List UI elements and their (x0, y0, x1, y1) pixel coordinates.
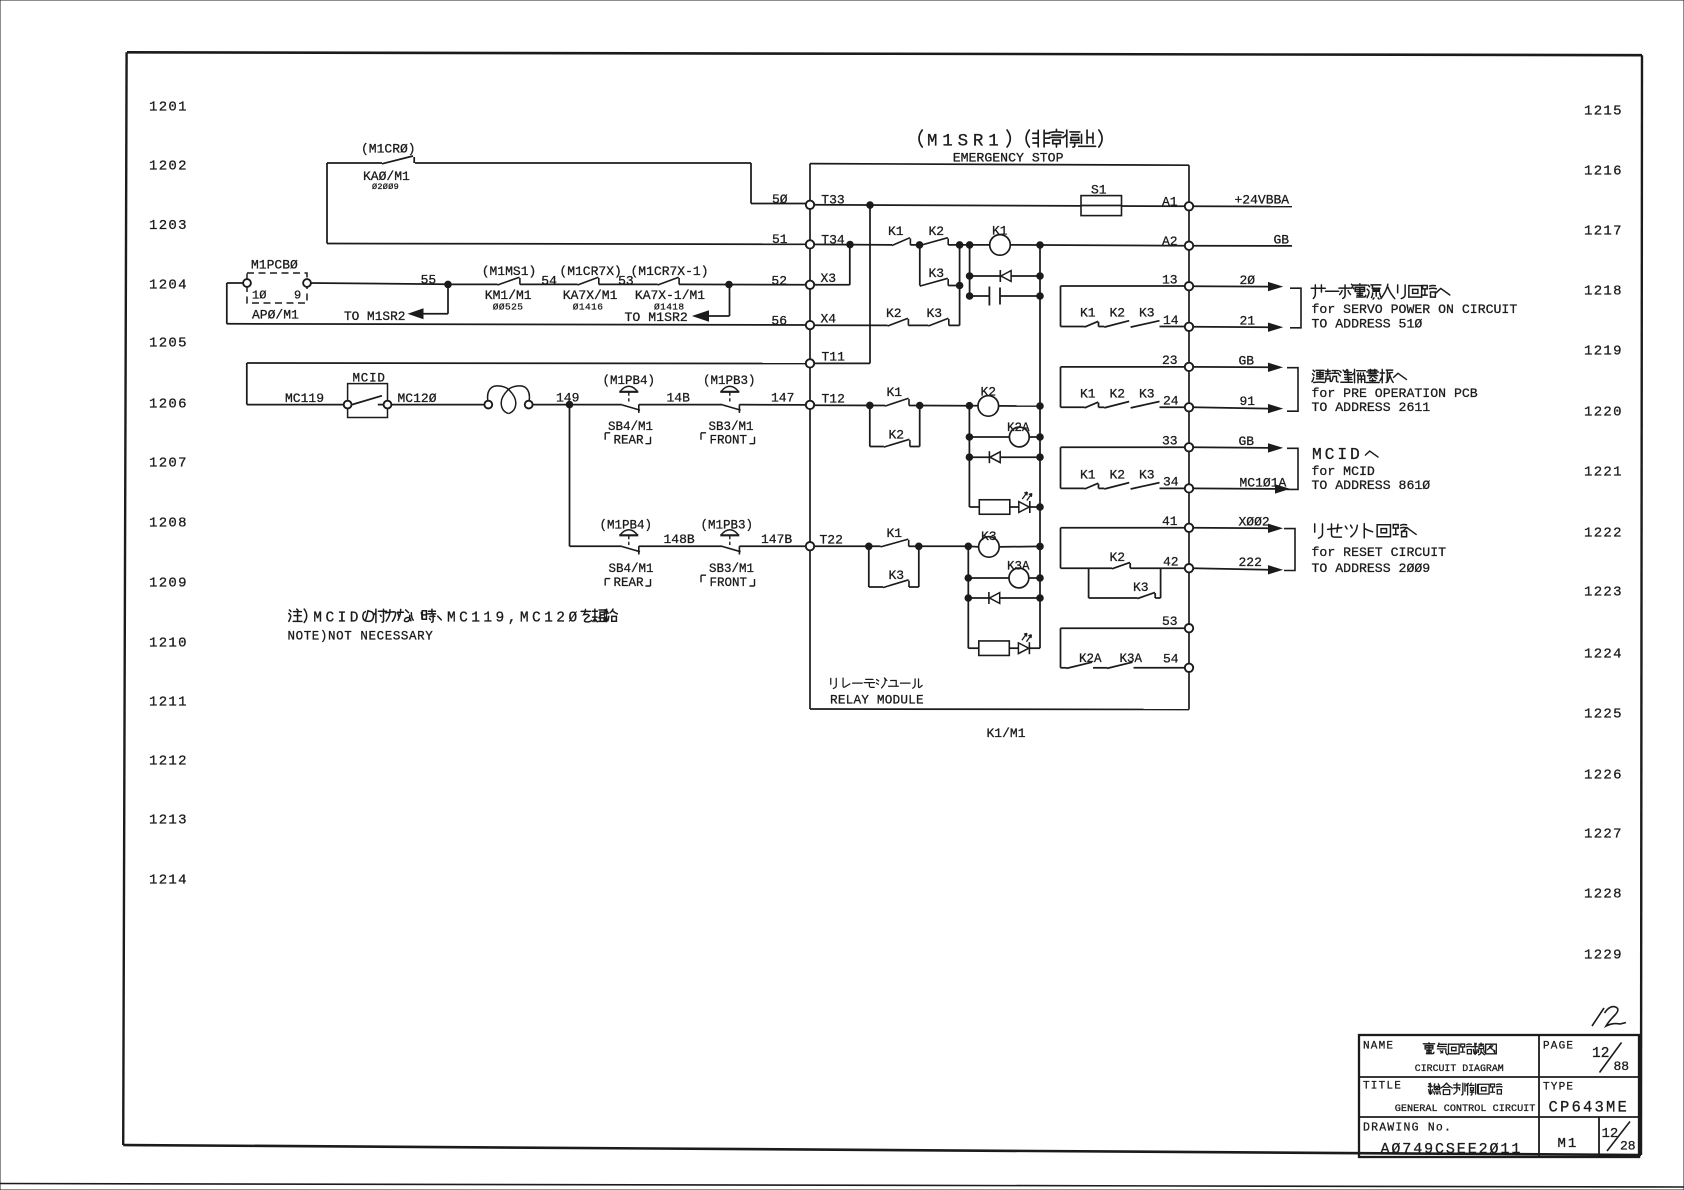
svg-text:1212: 1212 (149, 754, 188, 770)
svg-text:C: C (459, 611, 468, 627)
wire node 54 (520, 283, 578, 285)
svg-text:K2: K2 (886, 306, 902, 321)
svg-text:TO M1SR2: TO M1SR2 (625, 310, 688, 325)
left margin line numbers 1201-1214 (149, 100, 188, 889)
svg-text:14B: 14B (667, 391, 691, 406)
wire T34 row (810, 243, 892, 246)
svg-text:1224: 1224 (1584, 647, 1623, 663)
pushbutton SB3/M1 (M1PB3) FRONT, NC (701, 374, 756, 448)
wire K2K3 join down to X4 (959, 245, 961, 326)
wire coil branch down (969, 245, 971, 296)
svg-text:1211: 1211 (149, 695, 188, 711)
svg-text:for PRE OPERATION PCB: for PRE OPERATION PCB (1312, 386, 1478, 401)
svg-text:M: M (520, 611, 529, 627)
svg-text:13: 13 (1162, 273, 1178, 288)
contact K1 (888, 224, 910, 246)
svg-text:1225: 1225 (1584, 707, 1623, 723)
contact KA7X-1/M1 (M1CR7X-1) (631, 264, 709, 313)
svg-text:1216: 1216 (1584, 164, 1623, 180)
svg-text:for RESET CIRCUIT: for RESET CIRCUIT (1312, 545, 1447, 560)
svg-text:K3A: K3A (1007, 560, 1030, 574)
svg-text:K3: K3 (981, 529, 997, 544)
net GB(23) arrow (1193, 354, 1281, 372)
svg-text:(M1CR7X): (M1CR7X) (559, 264, 621, 279)
svg-text:1: 1 (471, 611, 480, 627)
wire node 147 (739, 404, 806, 406)
svg-text:SB3/M1: SB3/M1 (709, 562, 754, 576)
title block (1359, 1035, 1639, 1157)
svg-text:12: 12 (1592, 1046, 1609, 1062)
switch MCID (box with terminals) (344, 372, 392, 418)
terminal A1 (1185, 202, 1193, 210)
fuse S1 (1081, 183, 1122, 216)
svg-text:Ø1416: Ø1416 (573, 301, 604, 312)
svg-text:APØ/M1: APØ/M1 (252, 308, 299, 323)
title kanji general control (1395, 1083, 1536, 1115)
terminal 24 (1185, 403, 1193, 411)
reset annotation (1284, 524, 1446, 576)
MCID annotation (1287, 445, 1430, 493)
svg-text:REAR: REAR (614, 576, 645, 590)
svg-text:NAME: NAME (1363, 1041, 1394, 1053)
diode (K2 suppressor) (966, 451, 1043, 463)
svg-text:1218: 1218 (1584, 284, 1623, 300)
wire T12 row inside (814, 404, 885, 406)
svg-text:FRONT: FRONT (710, 576, 748, 590)
wire node 14B (639, 404, 723, 406)
terminal 13 (1185, 282, 1193, 290)
svg-text:1213: 1213 (149, 813, 188, 829)
svg-text:GENERAL CONTROL CIRCUIT: GENERAL CONTROL CIRCUIT (1395, 1104, 1536, 1115)
net 222 arrow (1193, 555, 1281, 574)
terminal T12 (806, 392, 845, 410)
svg-text:CIRCUIT DIAGRAM: CIRCUIT DIAGRAM (1415, 1063, 1504, 1074)
scan artifact line (0, 1184, 1684, 1188)
svg-text:K1: K1 (888, 224, 904, 239)
wire node 148B (639, 545, 723, 547)
svg-text:M1PCBØ: M1PCBØ (251, 258, 298, 273)
wire 55 from AP0 pin 9 (311, 283, 448, 284)
svg-text:K2: K2 (929, 224, 945, 239)
junction node 55 (445, 281, 452, 288)
pushbutton SB4/M1 (M1PB4) REAR lower, NC (600, 519, 654, 590)
svg-text:88: 88 (1614, 1059, 1630, 1074)
svg-text:54: 54 (1163, 652, 1179, 667)
net GB (1193, 233, 1292, 248)
pushbutton SB3/M1 (M1PB3) FRONT lower, NC (701, 519, 755, 590)
svg-text:222: 222 (1239, 555, 1262, 570)
relay KA0/M1 loop wires (327, 163, 806, 244)
svg-text:TO M1SR2: TO M1SR2 (344, 309, 405, 324)
svg-text:1207: 1207 (149, 456, 188, 472)
svg-text:K2A: K2A (1079, 652, 1102, 666)
terminal 34 (1185, 484, 1193, 492)
svg-text:DRAWING No.: DRAWING No. (1363, 1122, 1452, 1135)
coil K1 (990, 224, 1011, 256)
svg-text:K2: K2 (889, 428, 905, 443)
svg-text:147: 147 (771, 391, 794, 406)
svg-text:K2: K2 (981, 385, 997, 400)
terminal 33 (1185, 443, 1193, 451)
contact group K2/K3 (rows 41-42) (1061, 528, 1185, 569)
svg-text:FRONT: FRONT (710, 434, 748, 448)
contact K2 (hold, parallel K1) (870, 405, 920, 447)
svg-text:1221: 1221 (1584, 465, 1623, 481)
servo power annotation (1290, 284, 1517, 332)
wire 149 branch down (569, 405, 571, 547)
svg-text:1208: 1208 (149, 516, 188, 532)
resistor + LED (K2 indicator) (969, 492, 1043, 514)
handwritten page mark 12 (1592, 1007, 1626, 1026)
svg-text:M: M (447, 611, 456, 627)
svg-text:(M1CRØ): (M1CRØ) (361, 142, 416, 157)
svg-text:T11: T11 (822, 350, 846, 365)
svg-text:1219: 1219 (1584, 344, 1623, 360)
svg-text:GB: GB (1274, 233, 1290, 248)
svg-text:148B: 148B (664, 532, 695, 547)
svg-text:Ø: Ø (568, 611, 577, 627)
wire node 53 (599, 283, 658, 285)
svg-text:MCID: MCID (1312, 445, 1363, 464)
svg-text:14: 14 (1163, 313, 1179, 328)
svg-text:,: , (508, 611, 517, 627)
svg-text:1: 1 (544, 611, 553, 627)
contact K1 (T12) (885, 385, 909, 406)
svg-text:C: C (325, 611, 334, 627)
svg-text:REAR: REAR (614, 434, 645, 448)
svg-text:K3: K3 (1133, 580, 1149, 595)
wire AP0 left loop to X4 row (227, 283, 243, 324)
connector M1PCB0 (AP0/M1 pins 10,9) (243, 258, 311, 323)
title kanji circuit diagram (1415, 1043, 1504, 1074)
wire 52 to X3 (679, 283, 806, 285)
arrow TO M1SR2 (left) (344, 284, 448, 323)
svg-text:1210: 1210 (149, 636, 188, 652)
svg-text:1209: 1209 (149, 576, 188, 592)
svg-text:TO ADDRESS 2ØØ9: TO ADDRESS 2ØØ9 (1312, 561, 1431, 576)
wire MC119 (247, 404, 344, 406)
svg-text:1227: 1227 (1584, 827, 1623, 843)
svg-text:M: M (313, 611, 322, 627)
svg-text:X4: X4 (821, 312, 837, 327)
label relay module (830, 678, 924, 708)
diode (K3 suppressor) (965, 592, 1043, 604)
svg-text:I: I (338, 611, 347, 627)
right margin line numbers 1215-1229 (1584, 104, 1623, 964)
coil K3A (965, 560, 1043, 588)
svg-text:1204: 1204 (149, 278, 188, 294)
svg-text:34: 34 (1163, 475, 1179, 490)
svg-text:K3: K3 (1139, 306, 1155, 321)
svg-text:K3: K3 (1139, 468, 1155, 483)
svg-text:21: 21 (1240, 313, 1256, 328)
wire X3 link up (849, 245, 851, 285)
contact K3 (parallel with K2) (920, 245, 960, 286)
terminal T22 (806, 533, 843, 551)
svg-text:2: 2 (556, 611, 565, 627)
svg-text:K2: K2 (1110, 306, 1126, 321)
contact K3 (hold, parallel K1) (869, 546, 919, 587)
svg-text:1206: 1206 (149, 397, 188, 413)
svg-text:K3: K3 (929, 266, 945, 281)
svg-text:M1: M1 (1558, 1136, 1579, 1152)
svg-text:55: 55 (421, 272, 437, 287)
svg-text:SB4/M1: SB4/M1 (608, 420, 653, 434)
svg-text:S1: S1 (1091, 183, 1107, 198)
svg-text:+24VBBA: +24VBBA (1235, 193, 1290, 208)
net GB(33) arrow (1193, 434, 1281, 452)
svg-text:M: M (927, 132, 938, 152)
svg-text:54: 54 (541, 273, 557, 288)
svg-text:TITLE: TITLE (1363, 1081, 1402, 1093)
terminal 54 (1185, 664, 1193, 672)
svg-text:T22: T22 (820, 533, 843, 548)
wire T11 row (247, 363, 806, 405)
wire T22 feed (570, 545, 622, 547)
terminal 42 (1185, 564, 1193, 572)
svg-text:ØØ525: ØØ525 (493, 301, 524, 312)
svg-text:1217: 1217 (1584, 224, 1623, 240)
junction node 52 (726, 281, 733, 288)
coil K2 (969, 385, 998, 417)
svg-text:1214: 1214 (149, 873, 188, 889)
svg-text:TO ADDRESS 2611: TO ADDRESS 2611 (1312, 400, 1431, 415)
wire T22 row inside (814, 545, 881, 547)
contact group K1 K2 K3 (rows 33-34) (1061, 447, 1185, 489)
svg-text:for SERVO POWER ON CIRCUIT: for SERVO POWER ON CIRCUIT (1312, 302, 1518, 317)
svg-text:RELAY MODULE: RELAY MODULE (830, 693, 924, 708)
terminal T33 (806, 201, 814, 209)
net MC101A arrow (1193, 475, 1288, 493)
svg-text:XØØ2: XØØ2 (1239, 515, 1270, 530)
svg-text:TO ADDRESS 861Ø: TO ADDRESS 861Ø (1312, 478, 1431, 493)
svg-text:24: 24 (1163, 394, 1179, 409)
svg-text:(M1CR7X-1): (M1CR7X-1) (631, 264, 709, 279)
svg-text:52: 52 (771, 273, 787, 288)
svg-text:MC12Ø: MC12Ø (398, 391, 437, 406)
terminal 53 (1185, 624, 1193, 632)
svg-text:1222: 1222 (1584, 526, 1623, 542)
arrow TO M1SR2 (right) (625, 285, 730, 325)
svg-text:1229: 1229 (1584, 948, 1623, 964)
svg-text:1228: 1228 (1584, 887, 1623, 903)
svg-text:56: 56 (771, 314, 787, 329)
wire node 149 (533, 404, 622, 406)
svg-text:2Ø: 2Ø (1240, 273, 1256, 288)
connector link symbol (484, 386, 532, 414)
svg-text:CP643ME: CP643ME (1549, 1099, 1630, 1117)
coil K3 (968, 529, 999, 557)
svg-text:EMERGENCY STOP: EMERGENCY STOP (953, 151, 1064, 166)
contact K3 (parallel, rows 42) (1089, 568, 1161, 598)
svg-text:K2A: K2A (1007, 421, 1030, 435)
wire right bus vertical (1039, 245, 1041, 648)
contact K2 (920, 224, 948, 246)
svg-text:X3: X3 (821, 271, 837, 286)
svg-text:GB: GB (1239, 354, 1255, 369)
svg-text:1201: 1201 (149, 100, 188, 116)
terminal X3 (806, 271, 850, 289)
svg-text:1: 1 (483, 611, 492, 627)
contact KA7X/M1 (M1CR7X) (559, 264, 621, 313)
wire MC120 (391, 404, 484, 406)
svg-text:K1: K1 (887, 526, 903, 541)
svg-text:K3: K3 (1139, 387, 1155, 402)
svg-text:K3: K3 (889, 568, 905, 583)
wire K3A branch vertical (967, 546, 969, 648)
svg-text:9: 9 (496, 611, 505, 627)
wire T33-A1 (+24VBBA) (810, 205, 1292, 207)
svg-text:33: 33 (1162, 434, 1178, 449)
terminal 41 (1185, 524, 1193, 532)
svg-text:MC1Ø1A: MC1Ø1A (1240, 475, 1287, 490)
svg-text:T12: T12 (822, 392, 845, 407)
pre-operation annotation (1287, 368, 1478, 416)
svg-text:1202: 1202 (149, 159, 188, 175)
note text japanese (288, 609, 618, 643)
svg-text:K1: K1 (1080, 306, 1096, 321)
sheet fraction 12/28 (1602, 1122, 1636, 1154)
diode (K1 suppressor) (966, 270, 1043, 282)
svg-text:D: D (350, 611, 359, 627)
svg-text:A1: A1 (1162, 194, 1178, 209)
svg-text:1215: 1215 (1584, 104, 1623, 120)
svg-text:TO ADDRESS 51Ø: TO ADDRESS 51Ø (1312, 316, 1423, 331)
terminal X4 (806, 312, 837, 330)
svg-text:SB4/M1: SB4/M1 (609, 562, 654, 576)
svg-text:GB: GB (1239, 434, 1255, 449)
svg-text:A2: A2 (1162, 234, 1178, 249)
svg-text:5Ø: 5Ø (772, 192, 788, 207)
svg-text:K2: K2 (1110, 468, 1126, 483)
net X002 arrow (1193, 515, 1281, 533)
svg-text:42: 42 (1163, 555, 1179, 570)
svg-text:S: S (958, 132, 969, 152)
net 20 arrow (1193, 273, 1281, 291)
svg-text:K1/M1: K1/M1 (987, 726, 1026, 741)
page fraction 12/88 (1592, 1043, 1629, 1075)
svg-text:1220: 1220 (1584, 405, 1623, 421)
coil K2A (966, 421, 1043, 447)
contact K2 (X4) (886, 306, 908, 326)
capacitor (966, 287, 1043, 306)
svg-text:K2: K2 (1110, 387, 1126, 402)
svg-text:1226: 1226 (1584, 768, 1623, 784)
svg-text:MCID: MCID (353, 372, 386, 386)
resistor + LED (K3 indicator) (968, 633, 1040, 655)
svg-text:PAGE: PAGE (1543, 1041, 1574, 1053)
wire link T33 to T11 (869, 205, 871, 363)
svg-text:R: R (973, 132, 984, 152)
svg-text:T34: T34 (821, 232, 845, 247)
svg-text:28: 28 (1620, 1139, 1636, 1154)
svg-text:23: 23 (1162, 353, 1178, 368)
svg-text:K1: K1 (887, 385, 903, 400)
svg-text:T33: T33 (821, 193, 844, 208)
svg-text:1: 1 (988, 132, 999, 152)
junction T33 link (867, 202, 874, 209)
terminal T34 (806, 240, 814, 248)
contact KM1/M1 (M1MS1) (448, 277, 520, 285)
svg-text:53: 53 (1162, 614, 1178, 629)
terminal 23 (1185, 363, 1193, 371)
svg-text:1203: 1203 (149, 218, 188, 234)
svg-text:K1: K1 (1080, 387, 1096, 402)
net 21 arrow (1193, 313, 1281, 331)
svg-text:K1: K1 (1080, 468, 1096, 483)
svg-text:K3A: K3A (1120, 652, 1143, 666)
contact group K1 K2 K3 (rows 23-24) (1061, 367, 1185, 408)
contact K3 (X4) (927, 306, 949, 326)
contact KA0/M1 (M1CR0) (361, 142, 416, 193)
wire X4 row inside (814, 324, 888, 326)
svg-text:1Ø: 1Ø (252, 289, 266, 303)
svg-text:1: 1 (942, 132, 953, 152)
terminal A2 (1185, 242, 1193, 250)
svg-text:K3: K3 (927, 306, 943, 321)
svg-text:9: 9 (294, 289, 301, 303)
svg-text:K2: K2 (1110, 550, 1126, 565)
svg-text:(M1MS1): (M1MS1) (482, 264, 537, 279)
wire K2A branch vertical (968, 406, 970, 507)
svg-text:41: 41 (1162, 514, 1178, 529)
svg-text:1223: 1223 (1584, 585, 1623, 601)
wire node 147B (739, 545, 806, 547)
terminal T11 (806, 350, 870, 368)
svg-text:147B: 147B (761, 532, 792, 547)
svg-text:51: 51 (772, 232, 788, 247)
svg-text:K1: K1 (992, 224, 1008, 239)
terminal 14 (1185, 323, 1193, 331)
svg-text:SB3/M1: SB3/M1 (709, 420, 754, 434)
svg-text:AØ749CSEE2Ø11: AØ749CSEE2Ø11 (1381, 1141, 1523, 1158)
svg-text:C: C (532, 611, 541, 627)
svg-text:Ø2ØØ9: Ø2ØØ9 (372, 182, 399, 192)
svg-text:for MCID: for MCID (1312, 464, 1375, 479)
contact K1 (T22) (881, 526, 909, 547)
wire X4 row (56) (227, 324, 806, 325)
contact group K2A/K3A (rows 53-54) (1061, 628, 1185, 668)
node M1SR1 emergency stop header (919, 129, 1102, 165)
relay module box (810, 164, 1189, 710)
contact group K1 K2 K3 (rows 13-14) (1061, 286, 1185, 327)
svg-text:1205: 1205 (149, 336, 188, 352)
svg-text:TYPE: TYPE (1543, 1082, 1574, 1094)
net 91 arrow (1193, 394, 1281, 413)
pushbutton SB4/M1 (M1PB4) REAR, NC (603, 374, 656, 448)
svg-text:MC119: MC119 (285, 391, 324, 406)
svg-text:91: 91 (1240, 394, 1256, 409)
svg-text:NOTE)NOT NECESSARY: NOTE)NOT NECESSARY (288, 630, 434, 644)
